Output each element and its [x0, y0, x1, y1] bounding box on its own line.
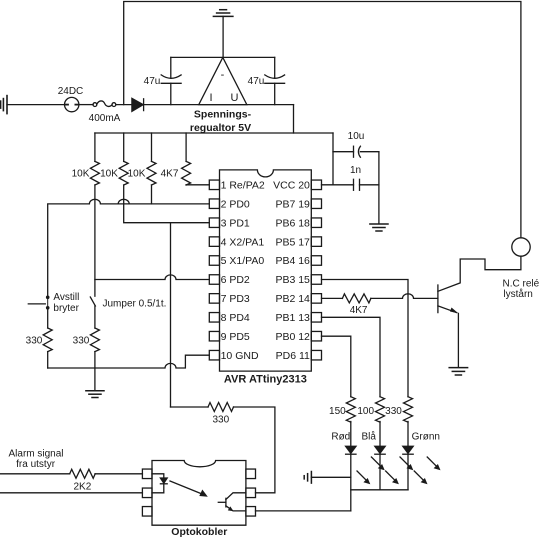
svg-text:1 Re/PA2: 1 Re/PA2 [221, 180, 265, 192]
svg-text:330: 330 [212, 415, 229, 426]
IC U1 AVR ATtiny2313 body [220, 170, 312, 371]
LED D2 Rod [350, 422, 352, 447]
svg-text:VCC 20: VCC 20 [273, 180, 310, 192]
pin 20 box [311, 180, 321, 190]
capacitor C1 47u left [170, 57, 172, 78]
pin 3 box [209, 218, 219, 228]
svg-text:U: U [231, 92, 239, 104]
ground above regulator [222, 16, 224, 57]
svg-text:Avstill: Avstill [53, 292, 79, 303]
svg-text:7 PD3: 7 PD3 [221, 293, 250, 305]
wire 10u top branch [333, 151, 354, 153]
resistor R10 330 [90, 328, 99, 352]
svg-text:5 X1/PA0: 5 X1/PA0 [221, 255, 265, 267]
resistor R8 330 [404, 397, 413, 422]
fuse F1 400mA [93, 103, 97, 107]
pin 19 box [311, 199, 321, 209]
wire pin2 PD0 net with humps [48, 199, 210, 296]
svg-text:bryter: bryter [53, 303, 79, 314]
pin 5 box [209, 256, 219, 266]
pin 18 box [311, 218, 321, 228]
resistor R12 2K2 [70, 469, 96, 478]
svg-text:10u: 10u [348, 131, 365, 142]
svg-text:3 PD1: 3 PD1 [221, 217, 250, 229]
svg-text:PB5 17: PB5 17 [275, 236, 310, 248]
wire jack to fuse [79, 104, 93, 106]
resistor R5 4K7 [342, 294, 370, 303]
ground below 1n [370, 223, 388, 225]
wire regulator output down to 5V bus [293, 105, 295, 133]
pin 13 box [311, 313, 321, 323]
svg-text:PB7 19: PB7 19 [275, 198, 310, 210]
svg-text:fra utstyr: fra utstyr [16, 459, 56, 470]
svg-text:PB4 16: PB4 16 [275, 255, 310, 267]
svg-text:6 PD2: 6 PD2 [221, 274, 250, 286]
capacitor C2 47u right [274, 57, 276, 78]
jumper S2 [90, 297, 95, 306]
wire bottom GND rail with hump [48, 355, 210, 368]
wire pin15 PB3 net [322, 280, 409, 397]
wire pin6 PD2 net with hump [95, 275, 209, 280]
alarm input wire 2 [0, 492, 142, 494]
svg-text:Grønn: Grønn [412, 432, 440, 443]
svg-text:PB1 13: PB1 13 [275, 312, 310, 324]
svg-text:150: 150 [329, 406, 346, 417]
opto pin 5 box [246, 488, 256, 498]
LED light arrows [357, 457, 441, 484]
wire R10 to bottom rail and ground [94, 352, 96, 390]
resistor R3 10K [151, 133, 153, 161]
pin 11 box [311, 350, 321, 360]
opto arrow [170, 481, 203, 494]
svg-text:2 PD0: 2 PD0 [221, 198, 250, 210]
svg-text:1n: 1n [350, 165, 361, 176]
capacitor C4 1n [353, 179, 355, 190]
wire LED bottom bus [351, 489, 408, 491]
alarm input wire 1 [0, 473, 70, 475]
lamp M1 N.C rele [512, 238, 530, 256]
svg-text:24DC: 24DC [58, 86, 84, 97]
svg-text:PB0 12: PB0 12 [275, 331, 310, 343]
svg-text:47u: 47u [144, 76, 161, 87]
resistor R11 330 [208, 403, 234, 412]
pin 6 box [209, 275, 219, 285]
LED D4 Gronn [407, 422, 409, 447]
wire regulator top rail [171, 56, 275, 58]
svg-text:10K: 10K [128, 169, 146, 180]
svg-text:400mA: 400mA [89, 113, 121, 124]
wire S2 to resistor [94, 306, 96, 328]
wire S1 to resistor [47, 308, 49, 328]
wire opto pin4 net [256, 510, 351, 512]
wire to 330 resistor [171, 406, 209, 408]
wire R9 to bottom rail [47, 352, 49, 368]
wire pin3 drop column [170, 223, 172, 407]
svg-text:Spennings-: Spennings- [194, 109, 252, 121]
svg-text:PB6 18: PB6 18 [275, 217, 310, 229]
wire R2 column down to pin3 wire [124, 185, 210, 223]
svg-text:9 PD5: 9 PD5 [221, 331, 250, 343]
ground bottom left [86, 390, 104, 392]
ground transistor emitter [449, 367, 467, 369]
resistor R2 10K [123, 133, 125, 161]
pin 8 box [209, 313, 219, 323]
wire pin14 PB2 to base with 4K7 and hump [322, 297, 343, 299]
wire diode to regulator rail [144, 104, 294, 106]
resistor R4 4K7 [185, 133, 187, 161]
svg-text:10K: 10K [100, 169, 118, 180]
pin 4 box [209, 237, 219, 247]
opto pin 1 box [142, 469, 152, 479]
svg-text:Blå: Blå [361, 431, 376, 443]
svg-text:PB3 15: PB3 15 [275, 274, 310, 286]
resistor R7 100 [376, 397, 385, 422]
wire feed to top rail [124, 2, 521, 238]
svg-text:10K: 10K [72, 169, 90, 180]
svg-text:4K7: 4K7 [350, 305, 368, 316]
wire R3 column down to pin2 wire [151, 185, 153, 204]
wire R1 column down [94, 185, 96, 296]
wire R4 to pin1 [186, 184, 209, 186]
wire main input rail [7, 104, 65, 106]
pin 2 box [209, 199, 219, 209]
svg-text:8 PD4: 8 PD4 [221, 312, 250, 324]
opto pin 3 box [142, 507, 152, 517]
svg-text:PB2 14: PB2 14 [275, 293, 310, 305]
wire pin13 PB1 net [322, 317, 381, 396]
pin 9 box [209, 331, 219, 341]
svg-text:lystårn: lystårn [503, 288, 532, 300]
svg-text:Optokobler: Optokobler [171, 526, 227, 538]
svg-text:100: 100 [357, 406, 374, 417]
IC pin labels left [221, 180, 310, 362]
wire pin12 PB0 net [322, 336, 351, 397]
wire VCC pin20 [322, 184, 354, 186]
svg-text:330: 330 [385, 406, 402, 417]
svg-text:2K2: 2K2 [74, 482, 92, 493]
opto phototransistor [225, 498, 227, 507]
LED D3 Bla [379, 422, 381, 447]
svg-text:Alarm signal: Alarm signal [8, 449, 63, 460]
wire 5V bus [95, 132, 333, 134]
resistor R1 10K [94, 133, 96, 161]
pin 14 box [311, 294, 321, 304]
wire fuse to diode [116, 104, 132, 106]
resistor R9 330 [43, 328, 52, 352]
svg-text:47u: 47u [248, 76, 265, 87]
capacitor C3 10u [353, 146, 355, 157]
diode D1 [132, 98, 143, 111]
ground rotated near LEDs [304, 472, 311, 484]
pin 12 box [311, 331, 321, 341]
svg-text:I: I [209, 92, 212, 104]
pin 16 box [311, 256, 321, 266]
pin 10 box [209, 350, 219, 360]
connector J1 24DC [65, 97, 79, 111]
svg-text:4K7: 4K7 [161, 169, 179, 180]
svg-text:4 X2/PA1: 4 X2/PA1 [221, 236, 265, 248]
svg-text:N.C relé: N.C relé [503, 279, 539, 290]
svg-text:AVR ATtiny2313: AVR ATtiny2313 [224, 374, 307, 386]
svg-text:-: - [221, 69, 225, 81]
svg-text:330: 330 [26, 336, 43, 347]
wire cap ground riser [378, 152, 380, 224]
optocoupler U2 body [152, 461, 246, 526]
transistor Q1 [437, 285, 439, 313]
ground PE left-edge [1, 96, 7, 114]
opto pin 2 box [142, 488, 152, 498]
svg-text:Jumper 0.5/1t.: Jumper 0.5/1t. [103, 298, 167, 309]
switch S1 Avstill bryter [47, 297, 49, 308]
wire R11 to opto pin5 [234, 407, 275, 493]
opto internal LED [152, 474, 164, 478]
svg-text:regualtor 5V: regualtor 5V [190, 122, 251, 134]
pin 15 box [311, 275, 321, 285]
wire VCC riser [332, 133, 334, 185]
wire ground to LED1 column [311, 476, 350, 478]
opto pin 4 box [246, 507, 256, 517]
svg-text:PD6 11: PD6 11 [276, 350, 310, 362]
pin 7 box [209, 294, 219, 304]
resistor R6 150 [346, 397, 355, 422]
svg-text:10 GND: 10 GND [221, 350, 259, 362]
pin 17 box [311, 237, 321, 247]
svg-text:Rød: Rød [331, 432, 350, 443]
svg-text:330: 330 [73, 336, 90, 347]
pin 1 box [209, 180, 219, 190]
regulator U3 triangle [199, 57, 247, 104]
opto pin 6 box [246, 469, 256, 479]
